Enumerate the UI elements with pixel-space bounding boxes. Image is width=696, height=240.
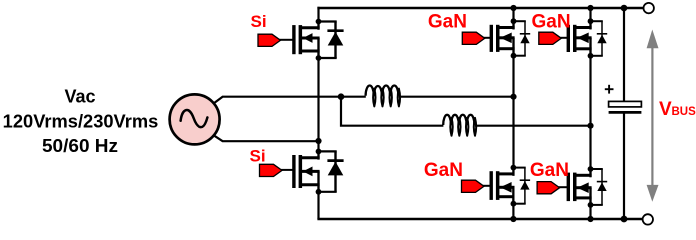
label VBUS xyxy=(659,99,696,120)
gate drive tag Q6 (GaN) xyxy=(537,182,568,194)
svg-text:BUS: BUS xyxy=(672,106,696,118)
svg-text:Vac: Vac xyxy=(64,87,95,107)
wire: AC line top lead to inductors xyxy=(214,97,514,104)
capacitor C1 (bus capacitor) xyxy=(609,101,642,112)
junction node A (inductor branch) xyxy=(338,93,345,100)
junction L1 to GaN leg1 midpoint xyxy=(510,94,516,100)
inductor L2 xyxy=(443,115,476,136)
wire: AC neutral bottom lead to Si leg midpoint xyxy=(214,135,319,141)
svg-text:V: V xyxy=(659,99,672,120)
junction AC neutral to Si leg xyxy=(315,138,321,144)
svg-text:GaN: GaN xyxy=(428,12,467,33)
body diode of Q6 xyxy=(591,169,608,205)
terminal: DC- output xyxy=(643,214,653,224)
junction Q5 drain node xyxy=(588,18,594,24)
junction cap branch on bottom rail xyxy=(621,216,628,223)
wire: Si leg vertical segments xyxy=(317,7,319,219)
svg-text:120Vrms/230Vrms: 120Vrms/230Vrms xyxy=(3,111,159,131)
gate drive tag Q2 (Si) xyxy=(260,164,294,176)
svg-text:Si: Si xyxy=(251,12,267,31)
label + polarity of C1 xyxy=(605,85,614,94)
transistor Q3 GaN xyxy=(490,20,515,56)
svg-text:50/60 Hz: 50/60 Hz xyxy=(42,136,118,156)
transistor Q1 Si xyxy=(292,20,319,58)
ac source V1 xyxy=(170,94,220,144)
junction Q1 source node xyxy=(316,55,322,61)
wire: capacitor branch verticals xyxy=(623,8,625,219)
body diode of Q1 xyxy=(319,22,344,59)
svg-text:Si: Si xyxy=(250,147,266,166)
wire: negative DC bottom rail xyxy=(317,218,642,220)
body diode of Q5 xyxy=(591,21,608,56)
transistor Q5 GaN xyxy=(567,20,592,56)
label: Vac source value xyxy=(3,87,159,156)
junction Q5 source node xyxy=(588,53,594,59)
wire: branch from node A down to second inductor xyxy=(341,97,591,126)
junction Q6 drain node xyxy=(588,166,594,172)
junction GaN leg2 on bottom rail xyxy=(587,216,593,222)
inductor L1 xyxy=(366,85,400,106)
junction GaN leg2 on top rail xyxy=(587,5,593,11)
gate drive tag Q4 (GaN) xyxy=(462,180,492,192)
junction Q6 source node xyxy=(588,202,594,208)
body diode of Q3 xyxy=(514,21,531,56)
junction Q2 drain node xyxy=(316,149,322,155)
svg-text:GaN: GaN xyxy=(530,160,569,181)
wire: GaN leg2 vertical segments xyxy=(589,8,591,219)
junction GaN leg1 on top rail xyxy=(510,5,516,11)
wire: positive DC top rail xyxy=(317,7,643,9)
junction Q4 source node xyxy=(511,201,517,207)
transistor Q2 Si xyxy=(292,150,319,192)
gate drive tag Q1 (Si) xyxy=(258,34,294,46)
svg-text:GaN: GaN xyxy=(424,160,463,181)
junction cap branch on top rail xyxy=(621,5,628,12)
junction Q3 drain node xyxy=(511,18,517,24)
body diode of Q2 xyxy=(319,151,344,191)
wire: GaN leg1 vertical segments xyxy=(512,8,514,219)
svg-text:GaN: GaN xyxy=(532,12,571,33)
transistor Q6 GaN xyxy=(567,168,592,205)
junction Q1 drain node xyxy=(316,19,322,25)
body diode of Q4 xyxy=(513,168,530,204)
annotation: VBUS measurement arrow xyxy=(647,30,659,202)
junction L2 to GaN leg2 midpoint xyxy=(587,123,593,129)
gate drive tag Q5 (GaN) xyxy=(539,32,568,44)
junction Q3 source node xyxy=(511,53,517,59)
gate drive tag Q3 (GaN) xyxy=(462,32,491,44)
junction Q4 drain node xyxy=(511,165,517,171)
terminal: DC+ output xyxy=(644,3,654,13)
junction GaN leg1 on bottom rail xyxy=(510,216,516,222)
transistor Q4 GaN xyxy=(490,166,515,203)
junction Q2 source node xyxy=(316,189,322,195)
